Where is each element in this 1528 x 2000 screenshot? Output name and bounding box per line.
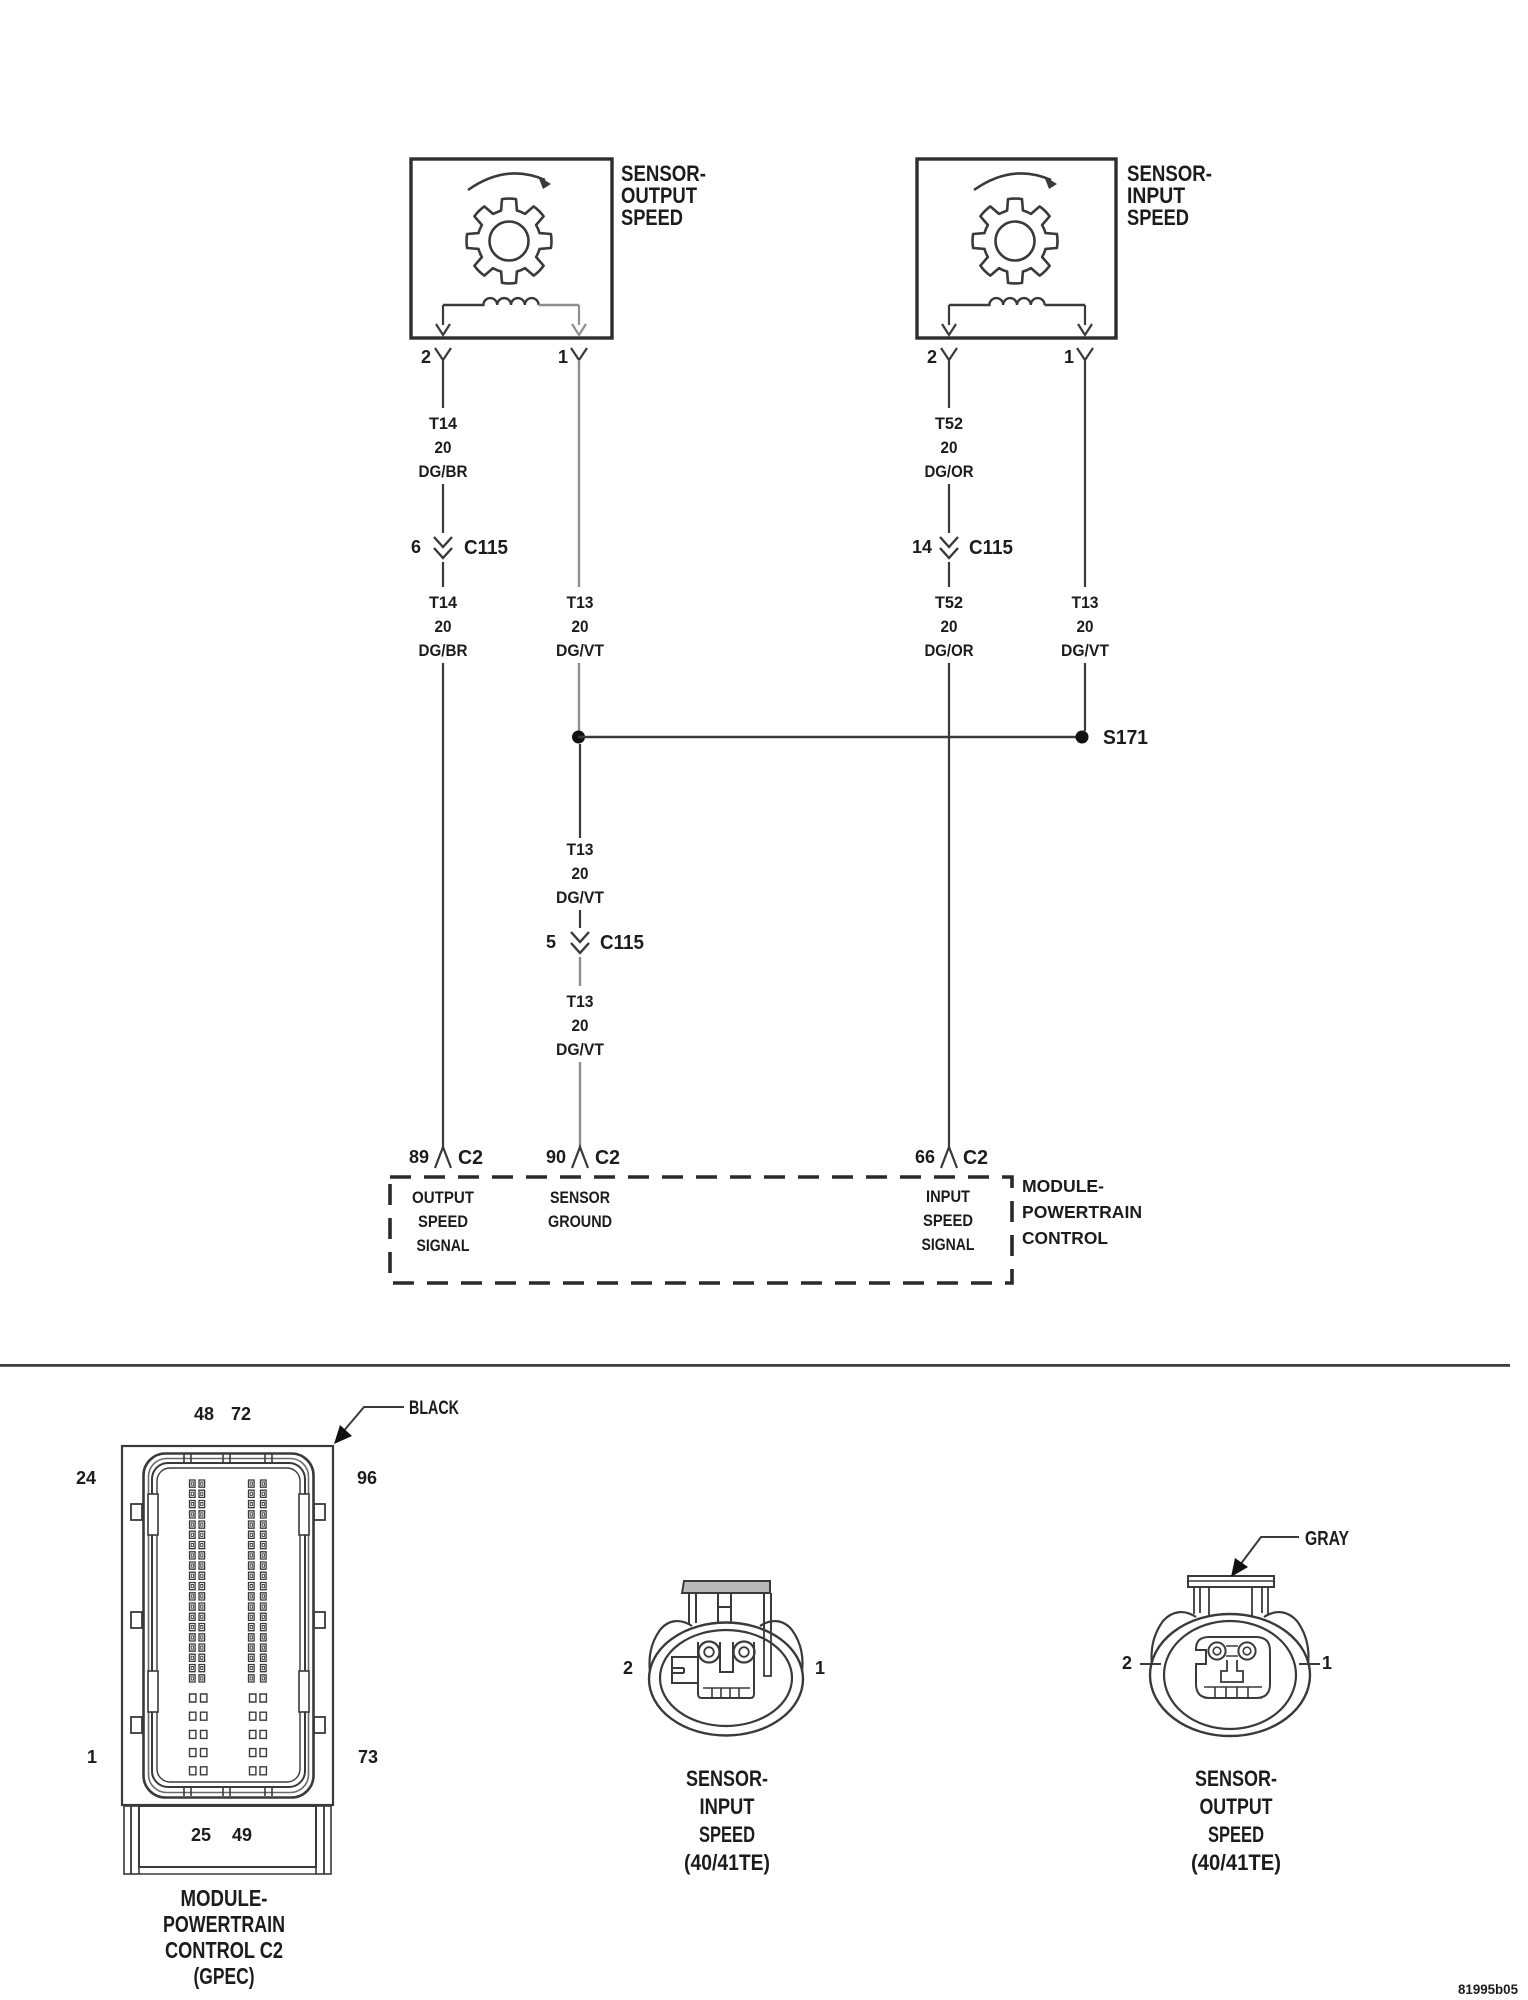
svg-text:SENSOR-: SENSOR- [686, 1766, 768, 1791]
wire T13 right to splice S171 [1084, 663, 1086, 731]
sensor-input-speed connector drawing [682, 1581, 770, 1593]
pickup coil (output sensor) [443, 298, 539, 305]
svg-text:25: 25 [191, 1825, 211, 1845]
splice bus wire to S171 [578, 736, 1082, 738]
svg-text:T52: T52 [935, 593, 963, 612]
svg-text:C2: C2 [595, 1147, 620, 1169]
wire T52 below C115 [948, 562, 950, 587]
wire T14 above C115 [442, 484, 444, 533]
svg-text:1: 1 [558, 347, 568, 367]
svg-text:(40/41TE): (40/41TE) [1191, 1850, 1281, 1875]
pin 2 (input sensor) [941, 348, 957, 360]
connector C115 pin 6 [434, 537, 452, 547]
svg-text:SENSOR-: SENSOR- [1195, 1766, 1277, 1791]
gear icon (output sensor) [467, 199, 552, 284]
svg-text:2: 2 [927, 347, 937, 367]
svg-text:72: 72 [231, 1404, 251, 1424]
sensor-output-speed box [411, 159, 612, 338]
svg-text:DG/VT: DG/VT [556, 888, 605, 907]
svg-text:C2: C2 [963, 1147, 988, 1169]
svg-text:5: 5 [546, 932, 556, 952]
svg-text:66: 66 [915, 1147, 935, 1167]
svg-text:20: 20 [1077, 617, 1094, 636]
svg-text:GRAY: GRAY [1305, 1528, 1350, 1550]
svg-text:T13: T13 [567, 840, 594, 859]
svg-text:DG/VT: DG/VT [556, 641, 605, 660]
svg-text:20: 20 [941, 438, 958, 457]
svg-text:1: 1 [87, 1747, 97, 1767]
svg-text:C115: C115 [464, 537, 508, 559]
svg-text:SPEED: SPEED [418, 1212, 468, 1231]
sensor-output-speed connector drawing [1188, 1576, 1274, 1587]
rotation arrow (output sensor) [468, 173, 545, 190]
module powertrain control C2 connector drawing [122, 1446, 333, 1805]
svg-text:DG/OR: DG/OR [925, 641, 974, 660]
module pin 89 [435, 1147, 451, 1168]
svg-text:14: 14 [912, 537, 932, 557]
svg-text:2: 2 [623, 1658, 633, 1678]
wire T52 above C115 [948, 484, 950, 533]
svg-text:20: 20 [572, 864, 589, 883]
pin 1 (input sensor) [1077, 348, 1093, 360]
svg-text:MODULE-: MODULE- [181, 1885, 268, 1911]
pin 1 (output sensor) [571, 348, 587, 360]
gear icon (input sensor) [973, 199, 1058, 284]
svg-text:(GPEC): (GPEC) [194, 1963, 255, 1989]
svg-text:INPUT: INPUT [926, 1187, 971, 1206]
svg-text:2: 2 [1122, 1653, 1132, 1673]
svg-text:MODULE-: MODULE- [1022, 1176, 1104, 1196]
section divider line [0, 1364, 1510, 1367]
svg-text:C2: C2 [458, 1147, 483, 1169]
svg-text:POWERTRAIN: POWERTRAIN [163, 1911, 285, 1937]
wire T52 from pin 2 [948, 360, 950, 408]
module-powertrain-control dashed box [390, 1177, 1012, 1283]
wire T13 right from pin 1 [1084, 360, 1086, 587]
svg-text:T14: T14 [429, 414, 458, 433]
svg-text:1: 1 [1064, 347, 1074, 367]
pin 2 (output sensor) [435, 348, 451, 360]
wire T14 to module pin 89 [442, 663, 444, 1147]
svg-text:T13: T13 [567, 992, 594, 1011]
module pin 90 [572, 1147, 588, 1168]
svg-text:CONTROL C2: CONTROL C2 [165, 1937, 283, 1963]
svg-text:DG/BR: DG/BR [419, 641, 468, 660]
svg-text:C115: C115 [969, 537, 1013, 559]
wire T13 to splice (gray) [578, 663, 580, 731]
pickup coil (input sensor) [949, 298, 1045, 305]
svg-text:T13: T13 [567, 593, 594, 612]
splice junction dot [572, 731, 585, 744]
svg-text:SPEED: SPEED [1127, 205, 1189, 230]
module pin 66 [941, 1147, 957, 1168]
svg-text:POWERTRAIN: POWERTRAIN [1022, 1202, 1142, 1222]
svg-text:1: 1 [1322, 1653, 1332, 1673]
svg-text:DG/VT: DG/VT [1061, 641, 1110, 660]
svg-text:24: 24 [76, 1468, 96, 1488]
svg-text:90: 90 [546, 1147, 566, 1167]
sensor-input-speed box [917, 159, 1116, 338]
svg-text:T14: T14 [429, 593, 458, 612]
svg-text:CONTROL: CONTROL [1022, 1228, 1108, 1248]
wire T13 below splice [579, 744, 581, 838]
svg-text:20: 20 [572, 617, 589, 636]
svg-text:SPEED: SPEED [621, 205, 683, 230]
svg-text:SPEED: SPEED [699, 1822, 755, 1847]
svg-text:T13: T13 [1072, 593, 1099, 612]
wire T13 below C115 pin 5 (gray) [579, 957, 581, 986]
svg-text:GROUND: GROUND [548, 1212, 612, 1231]
svg-text:96: 96 [357, 1468, 377, 1488]
svg-text:BLACK: BLACK [409, 1398, 459, 1419]
connector C115 pin 5 [571, 932, 589, 942]
rotation arrow (input sensor) [974, 173, 1051, 190]
svg-text:20: 20 [572, 1016, 589, 1035]
svg-text:20: 20 [941, 617, 958, 636]
svg-text:SENSOR: SENSOR [550, 1188, 610, 1207]
svg-text:OUTPUT: OUTPUT [412, 1188, 475, 1207]
svg-text:1: 1 [815, 1658, 825, 1678]
svg-text:(40/41TE): (40/41TE) [684, 1850, 770, 1875]
svg-text:89: 89 [409, 1147, 429, 1167]
svg-text:48: 48 [194, 1404, 214, 1424]
svg-text:SPEED: SPEED [1208, 1822, 1264, 1847]
connector C115 pin 14 [940, 537, 958, 547]
svg-text:SIGNAL: SIGNAL [922, 1235, 975, 1254]
svg-text:81995b05: 81995b05 [1458, 1981, 1518, 1997]
svg-text:SPEED: SPEED [923, 1211, 973, 1230]
wire T52 to module pin 66 [948, 663, 950, 1147]
wire T13 above C115 pin 5 [579, 910, 581, 928]
svg-text:2: 2 [421, 347, 431, 367]
svg-text:SIGNAL: SIGNAL [417, 1236, 470, 1255]
wire T13 from pin 1 (gray) [578, 360, 580, 587]
wire T14 below C115 [442, 562, 444, 587]
svg-text:49: 49 [232, 1825, 252, 1845]
svg-text:DG/BR: DG/BR [419, 462, 468, 481]
svg-text:INPUT: INPUT [700, 1794, 755, 1819]
wire T13 to module pin 90 (gray) [579, 1062, 581, 1147]
svg-text:73: 73 [358, 1747, 378, 1767]
svg-text:S171: S171 [1103, 727, 1148, 749]
svg-text:20: 20 [435, 438, 452, 457]
svg-text:C115: C115 [600, 932, 644, 954]
wire T14 from pin 2 to C115 [442, 360, 444, 408]
svg-text:DG/VT: DG/VT [556, 1040, 605, 1059]
svg-text:DG/OR: DG/OR [925, 462, 974, 481]
svg-text:20: 20 [435, 617, 452, 636]
svg-text:T52: T52 [935, 414, 963, 433]
svg-text:OUTPUT: OUTPUT [1200, 1794, 1273, 1819]
splice S171 dot [1076, 731, 1089, 744]
svg-text:6: 6 [411, 537, 421, 557]
